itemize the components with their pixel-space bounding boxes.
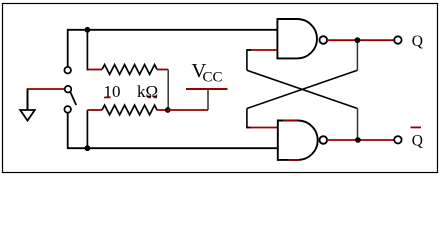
wire U1 lower input from U2 output (cross feedback) <box>247 49 358 140</box>
switch S1 <box>64 67 76 113</box>
svg-text:Q: Q <box>412 133 423 150</box>
nand gate U2 <box>278 121 327 160</box>
node A junction <box>85 27 91 33</box>
node B junction <box>85 145 91 151</box>
resistor R2 <box>87 105 167 148</box>
wire net A <box>68 30 278 67</box>
ground <box>20 89 35 121</box>
wire U1 output to Q <box>327 39 394 41</box>
resistor R1 <box>87 30 168 110</box>
wire U2 output to Qbar <box>327 139 394 141</box>
nand gate U1 <box>277 19 327 58</box>
wire net B <box>68 113 278 148</box>
wire U2 upper input from U1 output (cross feedback) <box>247 40 358 128</box>
node resistor junction <box>165 107 171 113</box>
wire ground to switch pole <box>27 88 65 90</box>
terminal Q <box>394 36 401 43</box>
svg-text:CC: CC <box>203 70 223 86</box>
label artifact red marks <box>104 97 111 99</box>
wire VCC to resistor junction <box>168 109 208 111</box>
svg-text:Q: Q <box>412 33 423 50</box>
power VCC <box>186 89 228 110</box>
terminal Qbar <box>394 136 401 143</box>
node Q junction <box>355 37 361 43</box>
node Qbar junction <box>355 137 361 143</box>
